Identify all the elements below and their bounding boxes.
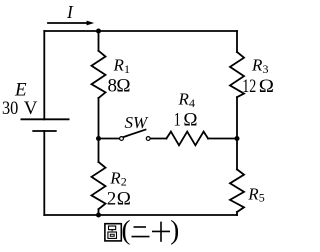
svg-text:12: 12: [242, 76, 256, 97]
svg-text:R: R: [247, 184, 259, 203]
svg-text:R: R: [251, 56, 263, 75]
svg-text:5: 5: [259, 190, 265, 204]
svg-text:Ω: Ω: [259, 76, 274, 97]
svg-text:R: R: [109, 169, 121, 188]
svg-text:1: 1: [174, 110, 181, 131]
svg-text:4: 4: [189, 96, 195, 110]
svg-text:1: 1: [124, 62, 130, 76]
svg-text:2: 2: [121, 175, 127, 189]
svg-text:Ω: Ω: [117, 188, 131, 209]
svg-text:Ω: Ω: [183, 110, 197, 131]
svg-text:(: (: [122, 215, 131, 245]
svg-text:R: R: [113, 56, 125, 75]
svg-text:): ): [170, 215, 179, 245]
svg-text:R: R: [178, 90, 190, 109]
svg-text:SW: SW: [125, 113, 150, 132]
svg-text:V: V: [24, 98, 38, 119]
svg-text:Ω: Ω: [116, 75, 130, 96]
svg-text:3: 3: [263, 62, 269, 76]
svg-text:2: 2: [107, 188, 117, 209]
svg-text:30: 30: [2, 98, 18, 119]
svg-text:I: I: [66, 2, 74, 22]
